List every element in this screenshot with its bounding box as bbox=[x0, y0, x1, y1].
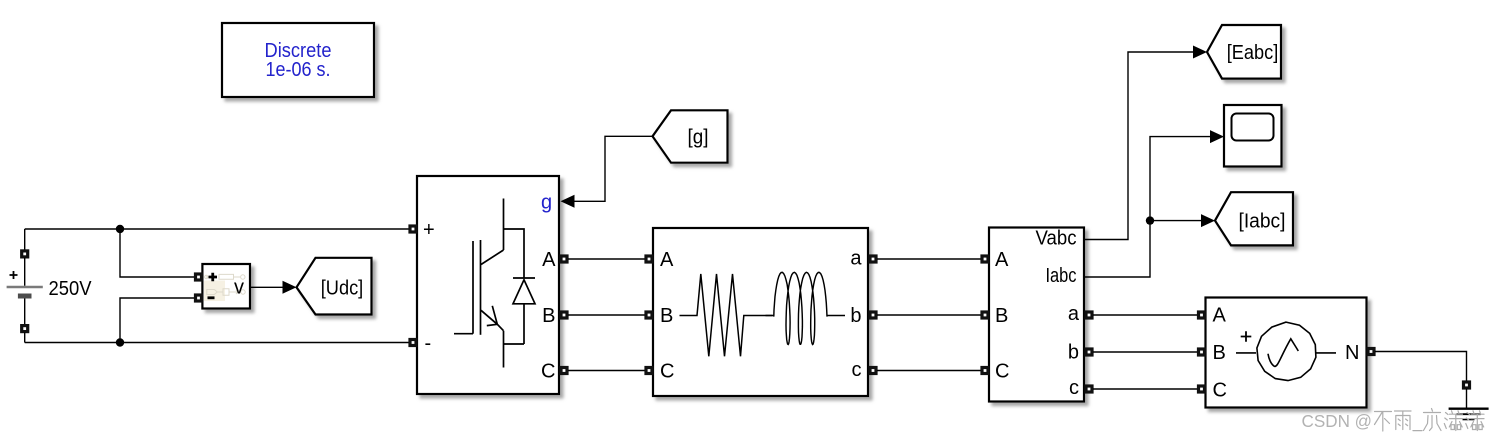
source circle (hand-drawn) bbox=[1257, 322, 1316, 381]
battery short plate bbox=[18, 294, 32, 299]
glyph xiao 1 bbox=[1444, 411, 1462, 431]
battery plus sign bbox=[10, 271, 18, 279]
faint icon row 2 bbox=[207, 289, 238, 295]
svg-text:Vabc: Vabc bbox=[1036, 228, 1077, 250]
glyph underscore bbox=[1413, 430, 1422, 432]
pale icon backdrop bbox=[204, 281, 225, 302]
input port C bbox=[646, 368, 652, 374]
Goto tag [Udc] bbox=[297, 258, 372, 315]
wire: measurement b to source B bbox=[1093, 351, 1197, 353]
svg-text:c: c bbox=[852, 359, 862, 381]
svg-text:A: A bbox=[660, 249, 674, 271]
svg-text:a: a bbox=[850, 247, 862, 269]
svg-text:A: A bbox=[995, 249, 1009, 271]
svg-text:B: B bbox=[1213, 342, 1226, 364]
svg-text:C: C bbox=[1213, 379, 1227, 401]
wire: filter b to measurement B bbox=[877, 314, 981, 316]
scope block bbox=[1224, 105, 1282, 167]
VM + port bbox=[196, 274, 202, 280]
svg-text:N: N bbox=[1345, 342, 1359, 364]
arrowhead into [Iabc] bbox=[1201, 214, 1215, 227]
battery + port bbox=[22, 251, 28, 257]
IGBT collector lead bbox=[481, 199, 504, 265]
resistor zigzag icon bbox=[680, 274, 773, 356]
port label - bbox=[208, 296, 215, 299]
Goto tag [Eabc] bbox=[1207, 25, 1281, 79]
svg-text:CSDN @: CSDN @ bbox=[1302, 411, 1373, 431]
output port a bbox=[1086, 312, 1092, 318]
battery + lead wire bbox=[24, 229, 26, 250]
output port c bbox=[1086, 386, 1092, 392]
wire: top bus junction to voltage measurement + bbox=[120, 229, 194, 277]
bridge + port bbox=[410, 226, 416, 232]
svg-text:[g]: [g] bbox=[688, 126, 709, 148]
three-phase series RLC branch (filter) bbox=[646, 228, 876, 396]
svg-text:b: b bbox=[1068, 342, 1079, 364]
DC voltage source battery 250V bbox=[7, 229, 92, 343]
source right lead bbox=[1316, 352, 1336, 354]
watermark CSDN bbox=[1302, 409, 1485, 432]
svg-text:v: v bbox=[234, 277, 244, 299]
svg-text:B: B bbox=[995, 305, 1008, 327]
output port b bbox=[1086, 349, 1092, 355]
wire: measurement c to source C bbox=[1093, 388, 1197, 390]
node: junction top DC bus bbox=[116, 225, 124, 233]
IGBT gate lead bbox=[454, 333, 473, 335]
arrowhead into [Udc] bbox=[283, 281, 297, 294]
wire: bridge A to filter A bbox=[568, 258, 645, 260]
battery - port bbox=[22, 326, 28, 332]
wire: filter a to measurement A bbox=[877, 258, 981, 260]
svg-text:a: a bbox=[1068, 303, 1080, 325]
input port C bbox=[982, 368, 988, 374]
input port A bbox=[646, 256, 652, 262]
wire: bridge B to filter B bbox=[568, 314, 645, 316]
battery - lead wire bbox=[24, 332, 26, 342]
three-phase V-I measurement block bbox=[982, 228, 1092, 402]
battery top lead bbox=[24, 258, 26, 286]
three-phase programmable voltage source bbox=[1199, 298, 1375, 408]
universal bridge (IGBT inverter) bbox=[410, 176, 567, 394]
arrowhead into bridge g port bbox=[561, 195, 575, 208]
svg-text:A: A bbox=[542, 249, 556, 271]
From tag [g] bbox=[653, 110, 728, 162]
arrowhead into scope bbox=[1210, 130, 1224, 143]
ground symbol bbox=[1449, 389, 1489, 420]
svg-text:[Udc]: [Udc] bbox=[321, 277, 364, 299]
svg-text:-: - bbox=[425, 332, 432, 354]
wire: Iabc to junction bbox=[1084, 221, 1150, 277]
wire: junction to Goto [Iabc] bbox=[1150, 220, 1202, 222]
IGBT body bar bbox=[480, 240, 482, 335]
voltage measurement block U_dc bbox=[196, 264, 251, 309]
output port c bbox=[870, 368, 876, 374]
svg-text:C: C bbox=[660, 360, 674, 382]
faint icon row 1 bbox=[206, 274, 241, 279]
input port B bbox=[982, 312, 988, 318]
source left lead bbox=[1236, 352, 1256, 354]
glyph xiao 2 bbox=[1466, 411, 1484, 431]
wire: battery - to bridge - (bottom DC bus) bbox=[25, 342, 409, 344]
source sine squiggle bbox=[1268, 339, 1298, 367]
svg-text:1e-06 s.: 1e-06 s. bbox=[266, 59, 331, 81]
IGBT emitter stub bbox=[504, 331, 525, 368]
wire: junction up to scope bbox=[1150, 137, 1211, 221]
diode cathode bar bbox=[513, 277, 535, 279]
svg-text:c: c bbox=[1069, 377, 1079, 399]
input port B bbox=[1199, 349, 1205, 355]
svg-text:b: b bbox=[850, 305, 861, 327]
svg-text:C: C bbox=[995, 360, 1009, 382]
wire: bridge C to filter C bbox=[568, 370, 645, 372]
bridge - port bbox=[410, 340, 416, 346]
svg-text:Iabc: Iabc bbox=[1046, 265, 1077, 287]
output port C bbox=[561, 368, 567, 374]
input port A bbox=[982, 256, 988, 262]
svg-text:B: B bbox=[660, 305, 673, 327]
svg-text:g: g bbox=[541, 191, 552, 213]
output port N bbox=[1368, 349, 1374, 355]
VM - port bbox=[196, 295, 202, 301]
battery bottom lead bbox=[24, 299, 26, 326]
port label + bbox=[209, 273, 218, 282]
diode triangle bbox=[513, 280, 535, 304]
svg-text:C: C bbox=[541, 360, 555, 382]
IGBT gate bar bbox=[472, 241, 474, 334]
input port A bbox=[1199, 312, 1205, 318]
wire: filter c to measurement C bbox=[877, 370, 981, 372]
output port b bbox=[870, 312, 876, 318]
svg-text:B: B bbox=[542, 305, 555, 327]
powergui block (Discrete) bbox=[222, 23, 374, 97]
source plus sign bbox=[1241, 331, 1252, 342]
IGBT emitter with arrow bbox=[481, 306, 504, 331]
input port C bbox=[1199, 386, 1205, 392]
svg-text:+: + bbox=[423, 219, 435, 241]
arrowhead into [Eabc] bbox=[1193, 46, 1207, 59]
glyph yu bbox=[1395, 411, 1412, 430]
input port B bbox=[646, 312, 652, 318]
ground port bbox=[1464, 382, 1470, 388]
wire: voltage measurement v to Goto [Udc] bbox=[250, 286, 283, 288]
svg-text:A: A bbox=[1213, 304, 1227, 326]
wire: bottom bus junction to voltage measurement - bbox=[120, 298, 194, 343]
wire: From [g] to bridge g bbox=[574, 136, 653, 201]
wire: measurement a to source A bbox=[1093, 314, 1197, 316]
output port a bbox=[870, 256, 876, 262]
glyph bu bbox=[1375, 412, 1392, 432]
glyph yi bbox=[1424, 409, 1442, 431]
wire: source N to ground bbox=[1375, 352, 1467, 382]
svg-text:[Eabc]: [Eabc] bbox=[1227, 42, 1279, 64]
node: Iabc junction bbox=[1146, 216, 1154, 224]
diode branch wire bbox=[504, 229, 525, 344]
inductor coil icon bbox=[766, 272, 846, 344]
node: junction bottom DC bus bbox=[116, 338, 124, 346]
battery long plate bbox=[7, 286, 43, 289]
svg-text:[Iabc]: [Iabc] bbox=[1239, 211, 1286, 233]
output port A bbox=[561, 256, 567, 262]
output port B bbox=[561, 312, 567, 318]
wire: Vabc to Goto [Eabc] bbox=[1084, 52, 1194, 240]
svg-text:250V: 250V bbox=[49, 278, 93, 300]
Goto tag [Iabc] bbox=[1215, 192, 1293, 245]
wire: battery + to bridge + (top DC bus) bbox=[25, 228, 409, 230]
